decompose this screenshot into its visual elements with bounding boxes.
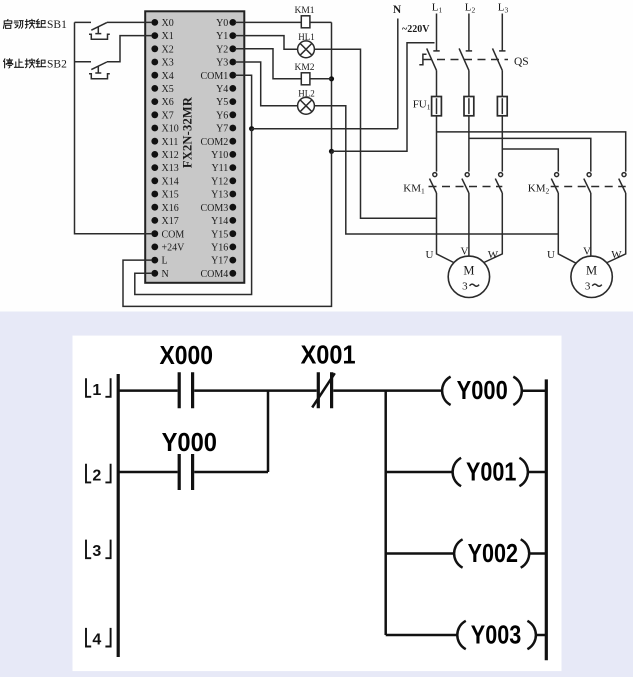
wire QS pole 2 to fuse <box>468 70 470 96</box>
contactor coil KM2 <box>301 73 310 85</box>
SB1 blade <box>91 23 107 31</box>
PLC pin X7 (left terminal) <box>151 110 173 121</box>
svg-text:X6: X6 <box>162 97 174 108</box>
svg-text:Y14: Y14 <box>211 216 228 227</box>
svg-text:+24V: +24V <box>162 243 186 254</box>
wire Y000 contact to branch <box>194 471 268 474</box>
PLC pin +24V (left terminal) <box>151 243 185 254</box>
coil Y001 <box>453 458 462 486</box>
motor M2 (M 3~) <box>571 256 612 297</box>
wire L feed to L1 <box>332 43 435 152</box>
svg-text:Y003: Y003 <box>471 622 521 650</box>
wire fuse to KM1 pole 3 <box>501 116 503 172</box>
label 启动按钮SB1 (start button caption) <box>3 19 67 31</box>
CJK 动 <box>14 21 23 29</box>
PLC pin X14 (left terminal) <box>151 176 178 187</box>
QS linkage dashed line <box>424 59 509 61</box>
wire KM1 pole3 to motor1 W <box>483 193 503 263</box>
QS pole 1 contact seat <box>433 50 439 52</box>
svg-text:SB1: SB1 <box>47 19 67 31</box>
svg-text:~220V: ~220V <box>402 24 430 35</box>
wire buttons common to COM <box>75 22 153 233</box>
fuse FU1 element 1 <box>432 97 442 116</box>
PLC pin Y10 (right terminal) <box>211 150 236 161</box>
wire output branch vertical <box>384 391 387 635</box>
wire KM2 pole3 to motor2 W <box>606 193 626 263</box>
svg-text:U: U <box>547 249 555 261</box>
svg-text:W: W <box>611 249 622 261</box>
SB1 actuator cap <box>89 34 110 39</box>
svg-text:X7: X7 <box>162 110 174 121</box>
svg-text:L: L <box>162 256 168 267</box>
SB2 actuator cap <box>89 74 110 79</box>
node N junction <box>249 126 254 131</box>
coil Y003 <box>457 621 466 649</box>
PLC pin Y17 (right terminal) <box>211 256 236 267</box>
svg-text:Y5: Y5 <box>216 97 228 108</box>
PLC pin COM (left terminal) <box>151 229 184 240</box>
svg-text:3: 3 <box>462 280 468 292</box>
svg-text:Y7: Y7 <box>216 124 228 135</box>
wire QS pole 3 to fuse <box>501 70 503 96</box>
wire KM2 coil to junction <box>310 78 332 80</box>
wire L1 feed to KM2 pole3 <box>437 132 626 172</box>
motor M1 (M 3~) <box>448 256 489 297</box>
PLC pin X5 (left terminal) <box>151 84 173 95</box>
CJK 启 <box>3 19 11 28</box>
PLC pin X3 (left terminal) <box>151 58 173 69</box>
ladder left power rail <box>117 374 120 657</box>
wire L1 drop to QS <box>436 14 438 51</box>
svg-text:X001: X001 <box>301 342 356 370</box>
CJK 按 <box>25 19 35 28</box>
PLC pin Y2 (right terminal) <box>216 44 236 55</box>
KM1 linkage dashed line <box>429 186 503 188</box>
PLC pin X1 (left terminal) <box>151 31 173 42</box>
svg-text:Y16: Y16 <box>211 243 228 254</box>
label rung 1 <box>86 378 111 399</box>
wire SB2 left lead <box>75 61 92 63</box>
PLC pin Y5 (right terminal) <box>216 97 236 108</box>
label rung 2 <box>86 464 111 485</box>
svg-text:X3: X3 <box>162 58 174 69</box>
fuse FU1 element 3 <box>497 97 507 116</box>
wire N line vertical <box>397 19 399 129</box>
wire branch to coil Y001 <box>386 471 452 474</box>
PLC pin X12 (left terminal) <box>151 150 178 161</box>
svg-text:X0: X0 <box>162 18 174 29</box>
PLC pin X10 (left terminal) <box>151 124 178 135</box>
fuse FU1 element 2 <box>464 97 474 116</box>
PLC pin X16 (left terminal) <box>151 203 178 214</box>
svg-text:KM1: KM1 <box>294 6 314 16</box>
SB1 actuator stem <box>95 27 101 34</box>
PLC pin Y15 (right terminal) <box>211 229 236 240</box>
svg-text:Y12: Y12 <box>211 176 228 187</box>
wire L riser (coil returns) <box>331 22 333 151</box>
coil Y002 <box>454 539 463 567</box>
lamp HL1 <box>298 41 315 58</box>
svg-text:M: M <box>463 264 474 278</box>
PLC pin COM1 (right terminal) <box>201 71 237 82</box>
PLC pin COM3 (right terminal) <box>201 203 237 214</box>
contactor KM1 main contact pole 3 <box>495 173 502 193</box>
svg-text:HL2: HL2 <box>298 89 315 99</box>
svg-text:X10: X10 <box>162 124 179 135</box>
svg-text:SB2: SB2 <box>47 59 67 71</box>
PLC pin Y6 (right terminal) <box>216 110 236 121</box>
PLC pin X4 (left terminal) <box>151 71 173 82</box>
PLC pin L (left terminal) <box>151 256 167 267</box>
QS pole 3 blade <box>493 48 503 70</box>
wire branch rung1-rung2 <box>267 391 270 472</box>
svg-text:1: 1 <box>92 382 101 399</box>
CJK 按 <box>25 59 35 68</box>
wire SB1 to X0 <box>107 21 152 23</box>
contactor KM2 main contact pole 3 <box>619 173 626 193</box>
contactor KM2 main contact pole 2 <box>584 173 591 193</box>
svg-text:2: 2 <box>92 467 101 484</box>
PLC pin X0 (left terminal) <box>151 18 173 29</box>
wire branch to coil Y003 <box>386 634 457 637</box>
PLC pin Y14 (right terminal) <box>211 216 236 227</box>
svg-text:N: N <box>393 4 402 16</box>
ladder white panel <box>73 336 562 671</box>
ladder right power rail <box>545 379 548 660</box>
wire branch to coil Y002 <box>386 552 454 555</box>
svg-text:COM: COM <box>162 229 185 240</box>
svg-text:COM1: COM1 <box>201 71 229 82</box>
node coil junction KM2/KM1 <box>329 76 334 81</box>
PLC U1 FX2N-32MR body <box>145 11 244 283</box>
wire KM1 pole1 to motor1 U <box>437 193 455 263</box>
QS pole 2 blade <box>459 48 469 70</box>
node L-feed junction <box>329 149 334 154</box>
svg-text:X2: X2 <box>162 44 174 55</box>
svg-text:QS: QS <box>514 56 529 68</box>
svg-text:Y1: Y1 <box>216 31 228 42</box>
svg-text:X16: X16 <box>162 203 179 214</box>
svg-text:Y17: Y17 <box>211 256 228 267</box>
wire KM1 coil to L riser <box>310 21 332 23</box>
svg-text:X15: X15 <box>162 190 179 201</box>
svg-text:3: 3 <box>585 280 591 292</box>
svg-text:Y11: Y11 <box>211 163 228 174</box>
PLC pin Y12 (right terminal) <box>211 176 236 187</box>
svg-text:Y001: Y001 <box>466 459 516 487</box>
QS pole 1 blade <box>427 48 437 70</box>
PLC pin X17 (left terminal) <box>151 216 178 227</box>
KM2 linkage dashed line <box>551 186 626 188</box>
svg-text:COM3: COM3 <box>201 203 229 214</box>
wire KM1 pole2 to motor1 V <box>468 193 470 257</box>
label rung 3 <box>86 540 111 561</box>
wire COM1 to N net <box>235 75 252 129</box>
wire QS pole 1 to fuse <box>436 70 438 96</box>
PLC pin Y1 (right terminal) <box>216 31 236 42</box>
svg-text:KM2: KM2 <box>294 63 314 73</box>
PLC pin N (left terminal) <box>151 269 168 280</box>
svg-text:HL1: HL1 <box>298 32 315 42</box>
wire L2 feed to KM2 pole2 <box>469 138 591 171</box>
wire N drop to PLC N pin <box>135 129 252 295</box>
svg-text:X14: X14 <box>162 176 179 187</box>
wire fuse to KM1 pole 1 <box>436 116 438 172</box>
contact Y000 (NO, seal-in) <box>179 454 192 490</box>
PLC pin Y11 (right terminal) <box>211 163 236 174</box>
CJK 停 <box>4 59 13 68</box>
wire Y2 to KM2 coil <box>235 49 301 79</box>
wire KM2 pole2 to motor2 V <box>590 193 592 256</box>
wire HL2 to motor2 U phase <box>314 106 558 234</box>
CJK 止 <box>14 59 23 67</box>
pushbutton SB1 (start, NO) <box>75 22 153 39</box>
svg-text:Y000: Y000 <box>162 429 217 457</box>
SB2 actuator stem <box>95 66 101 73</box>
wire Y0 to KM1 coil <box>235 21 301 23</box>
svg-text:Y10: Y10 <box>211 150 228 161</box>
label 停止按钮SB2 (stop button caption) <box>4 59 68 71</box>
wire PLC L pin to L net <box>123 151 332 306</box>
PLC pin X6 (left terminal) <box>151 97 173 108</box>
background top white <box>0 0 633 312</box>
wire rung1 from left rail <box>118 389 177 392</box>
PLC pin Y0 (right terminal) <box>216 18 236 29</box>
PLC pin X13 (left terminal) <box>151 163 178 174</box>
CJK 钮 <box>36 19 46 27</box>
wire L3 drop to QS <box>501 14 503 51</box>
wire HL1 to motor1 U phase <box>314 49 436 218</box>
svg-text:FX2N-32MR: FX2N-32MR <box>180 96 194 168</box>
QS pole 3 contact seat <box>499 50 505 52</box>
svg-text:X12: X12 <box>162 150 179 161</box>
svg-text:N: N <box>162 269 169 280</box>
svg-text:M: M <box>586 264 597 278</box>
svg-text:W: W <box>488 249 499 261</box>
svg-text:X1: X1 <box>162 31 174 42</box>
PLC pin COM4 (right terminal) <box>201 269 237 280</box>
svg-text:U: U <box>426 249 434 261</box>
svg-text:X000: X000 <box>159 342 213 370</box>
contact X001 (NC) <box>318 372 331 408</box>
wire L3 feed to KM2 pole1 <box>502 149 558 172</box>
svg-text:Y15: Y15 <box>211 229 228 240</box>
background lavender bottom <box>0 312 633 677</box>
PLC pin Y7 (right terminal) <box>216 124 236 135</box>
svg-text:X13: X13 <box>162 163 179 174</box>
svg-text:4: 4 <box>92 632 101 649</box>
wire X000 to X001 <box>194 389 317 392</box>
wire X001 to coil Y000 <box>333 389 441 392</box>
svg-text:Y2: Y2 <box>216 44 228 55</box>
QS handle mark <box>419 54 426 65</box>
PLC pin X11 (left terminal) <box>151 137 178 148</box>
contactor KM1 main contact pole 1 <box>430 173 437 193</box>
svg-text:X11: X11 <box>162 137 179 148</box>
SB2 blade <box>91 62 107 70</box>
svg-text:X17: X17 <box>162 216 179 227</box>
contactor coil KM1 <box>301 16 310 28</box>
wire SB2 to X1 <box>107 36 152 62</box>
wire Y1 to HL1 <box>235 36 298 50</box>
svg-text:Y002: Y002 <box>468 540 518 568</box>
wire Y3 to HL2 <box>235 62 298 106</box>
wire N net horizontal <box>252 128 398 130</box>
label rung 4 <box>86 628 111 649</box>
svg-text:Y000: Y000 <box>457 377 508 405</box>
PLC pin Y3 (right terminal) <box>216 58 236 69</box>
wire rung2 from left rail <box>118 471 177 474</box>
CJK 钮 <box>36 59 46 67</box>
PLC pin COM2 (right terminal) <box>201 137 237 148</box>
svg-text:Y6: Y6 <box>216 110 228 121</box>
svg-text:X5: X5 <box>162 84 174 95</box>
contactor KM2 main contact pole 1 <box>551 173 558 193</box>
contactor KM1 main contact pole 2 <box>462 173 469 193</box>
contact X000 (NO) <box>179 372 192 408</box>
svg-text:3: 3 <box>92 543 101 560</box>
QS pole 2 contact seat <box>466 50 472 52</box>
wire KM2 pole1 to motor2 U <box>558 193 576 264</box>
lamp HL2 <box>298 97 315 114</box>
wire L2 drop to QS <box>468 14 470 51</box>
svg-text:COM4: COM4 <box>201 269 229 280</box>
coil Y000 <box>442 377 451 405</box>
PLC pin Y4 (right terminal) <box>216 84 236 95</box>
svg-text:X4: X4 <box>162 71 174 82</box>
PLC pin Y16 (right terminal) <box>211 243 236 254</box>
svg-text:Y3: Y3 <box>216 58 228 69</box>
PLC pin X15 (left terminal) <box>151 190 178 201</box>
wire fuse to KM1 pole 2 <box>468 116 470 172</box>
pushbutton SB2 (stop, NC) <box>75 36 153 79</box>
svg-text:Y0: Y0 <box>216 18 228 29</box>
svg-text:COM2: COM2 <box>201 137 229 148</box>
svg-text:Y4: Y4 <box>216 84 228 95</box>
PLC pin X2 (left terminal) <box>151 44 173 55</box>
svg-text:Y13: Y13 <box>211 190 228 201</box>
wire SB1 left lead <box>75 21 92 23</box>
PLC pin Y13 (right terminal) <box>211 190 236 201</box>
